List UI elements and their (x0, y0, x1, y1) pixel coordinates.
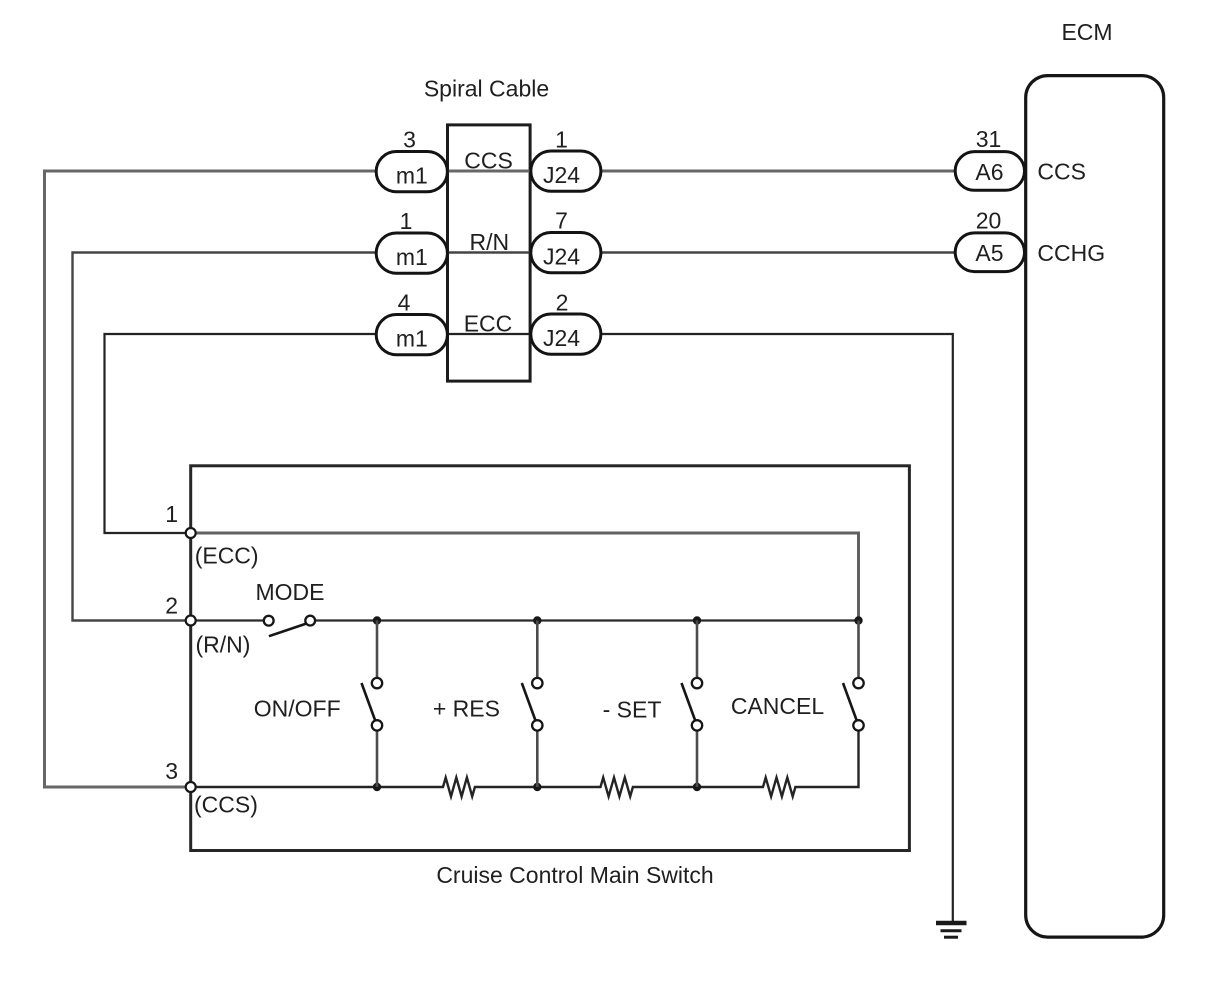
svg-text:Cruise Control Main Switch: Cruise Control Main Switch (436, 862, 713, 888)
ECM block (1026, 76, 1164, 938)
connector m1 pin 4 (ECC row) (376, 290, 447, 355)
svg-text:4: 4 (398, 290, 411, 316)
svg-text:CCS: CCS (1037, 159, 1086, 185)
node 3 (CCS) open terminal (165, 758, 258, 818)
node 2 (R/N) open terminal (165, 593, 250, 658)
ground (936, 923, 967, 937)
svg-text:ON/OFF: ON/OFF (254, 696, 341, 722)
svg-text:m1: m1 (396, 325, 428, 351)
svg-text:1: 1 (165, 501, 178, 527)
svg-text:2: 2 (556, 290, 569, 316)
svg-text:3: 3 (403, 127, 416, 153)
svg-text:J24: J24 (543, 244, 580, 270)
svg-text:R/N: R/N (469, 229, 509, 255)
connector m1 pin 1 (R/N row) (376, 208, 447, 273)
svg-text:ECM: ECM (1061, 19, 1112, 45)
wire ECC through spiral cable (448, 333, 531, 335)
svg-text:A5: A5 (975, 240, 1003, 266)
wire R/N net: left rail from m1 pin1 down to switch node 2 (73, 253, 448, 621)
wire CCS through spiral cable (448, 170, 531, 173)
svg-text:(ECC): (ECC) (195, 543, 259, 569)
svg-text:- SET: - SET (603, 697, 662, 723)
connector J24 pin 7 (R/N row) (531, 208, 601, 273)
svg-text:MODE: MODE (256, 579, 325, 605)
wire CCS net: left rail from m1 pin3 down to switch node 3 (45, 171, 448, 787)
wire node2 R/N stub to MODE switch (191, 619, 264, 621)
node 1 (ECC) open terminal (165, 501, 258, 569)
svg-text:3: 3 (165, 758, 178, 784)
connector ECM A6 pin 31 (955, 126, 1024, 190)
connector J24 pin 1 (CCS row) (531, 127, 601, 192)
connector m1 pin 3 (CCS row) (376, 127, 447, 192)
svg-text:CCHG: CCHG (1037, 240, 1105, 266)
svg-text:CANCEL: CANCEL (731, 693, 825, 719)
junction node dots on R/N row (373, 616, 863, 624)
wire ECC net: left rail from m1 pin4 down to switch node 1 (105, 334, 448, 533)
switch + RES (522, 621, 543, 788)
svg-text:(R/N): (R/N) (196, 631, 251, 657)
svg-text:m1: m1 (396, 162, 428, 188)
svg-text:(CCS): (CCS) (194, 792, 258, 818)
wire R/N: J24 pin7 to ECM A5 (601, 251, 958, 253)
spiral cable block (448, 125, 531, 381)
wire ECC: J24 pin2 to ground rail (601, 334, 953, 923)
switch CANCEL (843, 621, 864, 731)
svg-text:1: 1 (555, 127, 568, 153)
svg-text:A6: A6 (975, 159, 1003, 185)
switch - SET (682, 621, 703, 788)
wire CCS: J24 pin1 to ECM A6 (601, 170, 958, 173)
junction node dots on bottom CCS row (373, 783, 701, 791)
svg-text:31: 31 (976, 126, 1002, 152)
wire R/N row from MODE switch to CANCEL column (315, 619, 859, 621)
connector J24 pin 2 (ECC row) (531, 290, 601, 355)
svg-text:2: 2 (165, 593, 178, 619)
svg-text:J24: J24 (543, 325, 580, 351)
switch MODE (264, 616, 315, 637)
svg-text:20: 20 (976, 207, 1002, 233)
wire bottom CCS row with resistors R1 R2 R3 (191, 731, 859, 797)
svg-text:+ RES: + RES (433, 696, 500, 722)
wire node1 ECC row inside box, to vertical at right (191, 533, 859, 621)
cruise control main switch box (191, 466, 910, 851)
svg-text:7: 7 (555, 208, 568, 234)
svg-text:ECC: ECC (464, 310, 513, 336)
svg-text:1: 1 (400, 208, 413, 234)
switch ON/OFF (362, 621, 383, 788)
svg-text:J24: J24 (543, 162, 580, 188)
svg-text:m1: m1 (396, 244, 428, 270)
wire R/N through spiral cable (448, 251, 531, 253)
svg-text:Spiral Cable: Spiral Cable (424, 76, 549, 102)
svg-text:CCS: CCS (464, 148, 513, 174)
connector ECM A5 pin 20 (955, 207, 1024, 271)
